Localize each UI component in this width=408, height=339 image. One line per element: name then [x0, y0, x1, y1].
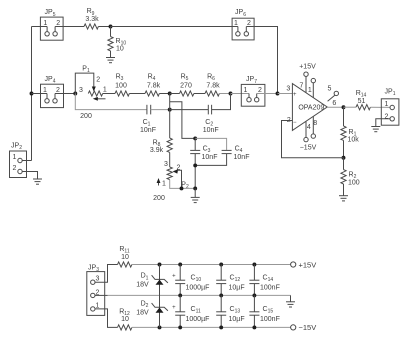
- wire left vertical bus (JP5 pin1 / JP2 pin1 / input row): [31, 27, 33, 161]
- resistor R1: [341, 107, 359, 158]
- capacitor C2 10nF: [203, 105, 219, 134]
- svg-text:−: −: [293, 120, 297, 126]
- svg-text:10nF: 10nF: [202, 154, 218, 161]
- wire mid rail ground stub: [290, 295, 292, 301]
- resistor R2: [341, 158, 360, 196]
- op-amp pin 6 label: [332, 100, 336, 107]
- svg-text:2: 2: [13, 165, 17, 172]
- op-amp U1 OPA209: [292, 84, 327, 131]
- svg-text:4: 4: [307, 124, 311, 131]
- ground under JP2 pin 2: [33, 179, 42, 184]
- svg-text:100: 100: [115, 82, 127, 89]
- svg-text:+15V: +15V: [299, 260, 317, 269]
- svg-text:100nF: 100nF: [260, 284, 280, 291]
- svg-text:1000µF: 1000µF: [186, 316, 210, 323]
- JP4 pin 2: [53, 87, 60, 103]
- svg-text:10k: 10k: [348, 136, 360, 143]
- svg-text:7.8k: 7.8k: [206, 82, 220, 89]
- connector JP3: [87, 265, 105, 316]
- svg-text:1: 1: [43, 87, 47, 94]
- svg-text:10nF: 10nF: [234, 154, 250, 161]
- wire node C to op-amp pin 3: [278, 93, 293, 95]
- node D1 top: [158, 263, 162, 267]
- wire node D to C2: [170, 109, 209, 111]
- JP5 pin 1: [43, 20, 49, 36]
- JP6 pin 1: [234, 20, 240, 36]
- svg-text:5: 5: [328, 86, 332, 93]
- svg-text:100: 100: [348, 180, 360, 187]
- svg-text:100nF: 100nF: [260, 316, 280, 323]
- svg-text:1: 1: [43, 20, 47, 27]
- JP3 pin 1: [91, 303, 118, 328]
- JP3 pin 3: [91, 265, 118, 285]
- wire P2 bottom to ground node: [170, 180, 196, 189]
- svg-text:10nF: 10nF: [203, 127, 219, 134]
- wire R9 to node: [98, 26, 110, 28]
- svg-text:1: 1: [384, 101, 388, 108]
- wire -15V rail: [132, 326, 293, 328]
- svg-text:10nF: 10nF: [140, 127, 156, 134]
- node C14/C15 mid: [252, 293, 256, 297]
- ground at mid rail: [286, 302, 295, 307]
- svg-text:1: 1: [308, 87, 312, 94]
- svg-text:8: 8: [313, 120, 317, 127]
- resistor R4: [145, 74, 161, 97]
- node C (op-amp +input): [276, 92, 280, 96]
- svg-text:1: 1: [244, 87, 248, 94]
- svg-text:10µF: 10µF: [229, 284, 245, 291]
- wire JP4 to P1: [55, 93, 75, 95]
- node C14 top: [252, 263, 256, 267]
- op-amp pin 5: [328, 86, 339, 102]
- svg-text:2: 2: [56, 87, 60, 94]
- node C12/C13 mid: [219, 293, 223, 297]
- node I (feedback junction): [342, 156, 346, 160]
- svg-text:3: 3: [96, 275, 100, 282]
- svg-text:18V: 18V: [136, 309, 149, 316]
- connector JP6: [232, 9, 254, 40]
- svg-text:6: 6: [332, 100, 336, 107]
- wire JP6 pin2 to op-amp +input node: [246, 27, 277, 94]
- svg-text:200: 200: [153, 195, 165, 202]
- wire JP7 to node C: [257, 93, 278, 95]
- wire node E to C4 top: [195, 138, 226, 150]
- connector JP2: [10, 142, 27, 177]
- node E (C3/C4 top junction): [193, 136, 197, 140]
- wire node A to R5: [170, 93, 180, 95]
- wire node G to ground: [194, 188, 196, 197]
- wire node A down to node D: [169, 94, 171, 110]
- node C10 top: [178, 263, 182, 267]
- svg-text:+: +: [293, 92, 297, 98]
- svg-text:7: 7: [300, 83, 304, 90]
- resistor R6: [205, 74, 220, 97]
- capacitor C4 10nF: [222, 146, 250, 161]
- svg-text:10µF: 10µF: [229, 316, 245, 323]
- op-amp pin 3 label: [286, 86, 290, 93]
- node B (R6/C2/JP7 junction): [229, 92, 233, 96]
- ground under R10: [106, 58, 115, 63]
- svg-text:51: 51: [358, 98, 366, 105]
- svg-text:2: 2: [258, 87, 262, 94]
- capacitor C10 1000uF: [172, 265, 209, 296]
- node C15 bottom: [252, 325, 256, 329]
- terminal +15V: [291, 260, 317, 269]
- -15V supply label: [300, 145, 317, 152]
- svg-text:10: 10: [121, 316, 129, 323]
- terminal -15V: [291, 323, 317, 332]
- capacitor C1 10nF: [140, 105, 156, 134]
- svg-text:−15V: −15V: [299, 323, 317, 332]
- wire feedback to op-amp pin 2: [282, 121, 344, 158]
- wire C1 to node D: [151, 109, 170, 111]
- JP7 pin 1: [244, 87, 252, 102]
- capacitor C3 10nF: [190, 138, 217, 161]
- resistor R14: [356, 90, 371, 110]
- JP1 pin 2: [376, 113, 395, 126]
- svg-text:1: 1: [103, 86, 107, 93]
- wire JP5 to R9: [55, 26, 84, 28]
- connector JP1: [381, 89, 399, 126]
- connector JP5: [40, 9, 63, 40]
- svg-text:10: 10: [116, 46, 124, 53]
- node D (C1/R8 junction): [168, 108, 172, 112]
- JP7 pin 2: [255, 87, 263, 102]
- svg-text:OPA209: OPA209: [298, 104, 324, 111]
- zener diode D1 18V: [136, 273, 168, 289]
- node A (R4/R5/C1/R8 junction): [168, 92, 172, 96]
- ground under JP1 pin 2: [371, 127, 380, 132]
- node R9/R10/JP6: [109, 25, 113, 29]
- resistor R11: [118, 246, 132, 267]
- JP2 pin 1: [13, 154, 32, 163]
- node F (C3/C4 bottom junction): [193, 163, 197, 167]
- wire C4 bottom to C3 bottom: [195, 154, 226, 166]
- ground under R2: [339, 196, 348, 201]
- op-amp pin 4 (-supply): [304, 121, 311, 142]
- wire C3 bottom down: [194, 154, 196, 189]
- ground under P2/C3: [191, 197, 200, 202]
- svg-text:−15V: −15V: [300, 145, 317, 152]
- capacitor C15 100nF: [249, 295, 279, 327]
- wire node A branch to C3 top: [170, 102, 196, 139]
- wire P1 to R3: [103, 93, 115, 95]
- svg-text:200: 200: [80, 113, 92, 120]
- wire node B to JP7: [231, 93, 250, 95]
- svg-text:7.8k: 7.8k: [147, 82, 161, 89]
- node C13 bottom: [219, 325, 223, 329]
- svg-text:+: +: [172, 305, 176, 311]
- wire R3 to R4: [129, 93, 145, 95]
- potentiometer P1 200: [75, 66, 107, 121]
- JP6 pin 2: [244, 20, 251, 36]
- resistor R3: [115, 74, 129, 97]
- wire node to JP4: [32, 93, 48, 95]
- node input row / JP2 riser: [30, 92, 34, 96]
- node C12 top: [219, 263, 223, 267]
- op-amp pin 8: [311, 116, 317, 138]
- svg-text:2: 2: [96, 77, 100, 84]
- node P1 pin3: [73, 92, 77, 96]
- JP4 pin 1: [43, 87, 49, 103]
- op-amp pin 2 label: [287, 117, 291, 124]
- svg-text:1: 1: [234, 20, 238, 27]
- capacitor C12 10uF: [216, 265, 244, 296]
- svg-text:1: 1: [13, 154, 17, 161]
- resistor R8: [150, 110, 172, 167]
- op-amp pin 1: [308, 78, 316, 97]
- resistor R10: [108, 27, 126, 58]
- svg-text:10: 10: [121, 254, 129, 261]
- wire +15V rail: [132, 264, 293, 266]
- resistor R5: [180, 74, 194, 97]
- wire R6 to node B: [219, 93, 230, 95]
- svg-text:3: 3: [79, 87, 83, 94]
- node G (ground junction): [193, 186, 197, 190]
- wire C2 to node B: [212, 94, 231, 110]
- potentiometer P2 200: [153, 161, 189, 202]
- wire node H to R14: [344, 106, 357, 108]
- wire node to JP6: [111, 26, 238, 28]
- node C10/C11 mid: [178, 293, 182, 297]
- wire R4 to node A: [159, 93, 169, 95]
- svg-text:3: 3: [286, 86, 290, 93]
- wire zener chain D1-D2: [159, 265, 161, 328]
- resistor R9: [84, 8, 99, 29]
- JP2 pin 2: [13, 165, 38, 179]
- node P2 wiper junction: [180, 186, 184, 190]
- node D2 bottom: [158, 325, 162, 329]
- wire P1 pin3 down to C1: [75, 94, 147, 110]
- resistor R12: [118, 308, 132, 330]
- capacitor C14 100nF: [249, 265, 279, 296]
- svg-text:+: +: [172, 273, 176, 279]
- capacitor C13 10uF: [216, 295, 244, 327]
- wire R14 to JP1: [370, 106, 390, 108]
- svg-text:3.9k: 3.9k: [150, 147, 164, 154]
- svg-text:+15V: +15V: [299, 64, 316, 71]
- node C11 bottom: [178, 325, 182, 329]
- svg-text:3.3k: 3.3k: [85, 16, 99, 23]
- wire into JP5: [32, 26, 48, 28]
- capacitor C11 1000uF: [172, 295, 209, 327]
- JP1 pin 1: [384, 101, 394, 110]
- svg-text:18V: 18V: [136, 281, 149, 288]
- wire R5 to R6: [194, 93, 205, 95]
- JP3 pin 2: [91, 289, 108, 297]
- connector JP4: [41, 76, 64, 108]
- +15V supply label: [299, 64, 316, 71]
- svg-text:3: 3: [164, 161, 168, 168]
- wire op-amp output to node H: [327, 106, 343, 108]
- node H (output junction): [342, 105, 346, 109]
- op-amp pin 7 (+supply): [300, 72, 309, 93]
- svg-text:1: 1: [162, 181, 166, 188]
- svg-text:270: 270: [180, 82, 192, 89]
- wire GND mid rail: [108, 294, 291, 296]
- svg-text:1000µF: 1000µF: [186, 284, 210, 291]
- JP5 pin 2: [53, 20, 60, 36]
- connector JP7: [241, 76, 265, 106]
- zener diode D2 18V: [136, 301, 168, 317]
